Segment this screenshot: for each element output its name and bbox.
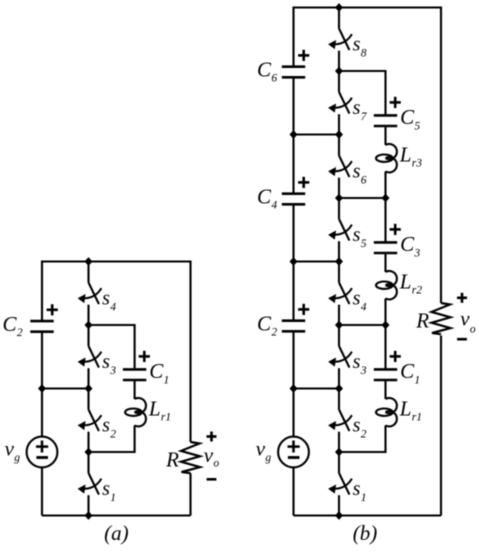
switch s4	[78, 262, 102, 326]
inductor Lr1	[125, 398, 146, 426]
capacitor C3	[374, 242, 397, 253]
svg-text:(b): (b)	[353, 521, 378, 545]
label R	[415, 309, 429, 333]
switch s7	[328, 71, 352, 135]
label R	[165, 448, 179, 472]
switch s3	[78, 325, 102, 389]
capacitor C5	[374, 115, 397, 126]
resistor R	[181, 442, 200, 473]
wire left rail segment 5 (b)	[292, 467, 294, 516]
wire inductor Lr2 to node n3b	[384, 298, 386, 325]
svg-text:(a): (a)	[104, 521, 129, 545]
inductor Lr2	[376, 271, 397, 299]
plus polarity C3	[390, 224, 401, 235]
label vo	[460, 306, 476, 335]
label C1	[400, 359, 420, 386]
wire left rail lower segment (a)	[41, 467, 43, 516]
label s2	[102, 415, 116, 441]
plus polarity C6	[298, 50, 309, 61]
label s1	[102, 478, 116, 504]
wire node n2a to middle rail (a)	[42, 387, 89, 389]
label Lr3	[399, 142, 422, 169]
label s2	[353, 415, 367, 441]
plus polarity C2	[298, 304, 309, 315]
inductor Lr1	[376, 398, 397, 426]
wire cap C1 to inductor Lr1 (b)	[384, 380, 386, 399]
switch s6	[328, 135, 352, 199]
switch s1	[78, 452, 102, 516]
svg-text:R: R	[165, 448, 179, 472]
minus output polarity	[207, 478, 217, 481]
inductor Lr3	[376, 144, 397, 172]
capacitor C1	[374, 369, 397, 380]
label s1	[353, 478, 367, 504]
label s4	[353, 288, 367, 314]
junction node dots (b)	[290, 3, 390, 520]
label C3	[400, 232, 420, 259]
plus polarity C2	[47, 304, 58, 315]
label C2	[257, 312, 277, 339]
junction node dots (a)	[38, 257, 93, 520]
svg-text:R: R	[415, 309, 429, 333]
plus polarity C5	[390, 97, 401, 108]
wire node n3b to branch rail	[339, 324, 386, 369]
wire right rail lower segment (a)	[189, 473, 191, 515]
caption (a)	[104, 521, 129, 545]
wire inductor Lr3 to node n5b	[384, 171, 386, 198]
label s4	[102, 288, 116, 314]
label Lr1	[148, 396, 171, 423]
voltage source vg	[27, 437, 58, 468]
wire node n2b to middle rail	[294, 387, 340, 389]
voltage source vg	[278, 437, 309, 468]
label C4	[257, 185, 277, 212]
wire cap C3 to inductor Lr2	[384, 253, 386, 272]
label C6	[257, 58, 277, 85]
capacitor C6	[282, 67, 305, 78]
resistor R	[432, 303, 451, 334]
wire bottom rail (b)	[294, 514, 442, 516]
label s3	[353, 351, 367, 377]
wire top rail (a)	[42, 260, 191, 262]
label s8	[353, 34, 367, 60]
label s7	[353, 97, 368, 123]
wire left rail segment 3 (b)	[292, 204, 294, 320]
switch s1	[328, 452, 352, 516]
switch s2	[328, 389, 352, 453]
wire left rail segment 2 (b)	[292, 77, 294, 193]
label s3	[102, 351, 116, 377]
wire right rail upper segment (b)	[440, 7, 442, 304]
plus polarity C1	[390, 351, 401, 362]
label vg	[5, 437, 21, 465]
wire cap C1 to inductor Lr1	[134, 380, 136, 399]
switch s4	[328, 262, 352, 326]
plus output polarity	[457, 293, 467, 303]
capacitor C4	[282, 194, 305, 205]
wire left rail upper segment (a)	[41, 261, 43, 322]
wire inductor Lr1 to branch bottom (a)	[89, 425, 135, 453]
wire node n5b to branch rail	[339, 197, 386, 242]
wire inductor Lr1 to branch bottom (b)	[339, 425, 386, 453]
switch s2	[78, 389, 102, 453]
wire bottom rail (a)	[42, 514, 191, 516]
switch s3	[328, 325, 352, 389]
capacitor C2	[282, 321, 305, 332]
minus output polarity	[457, 338, 467, 341]
plus polarity C4	[298, 177, 309, 188]
wire right rail lower segment (b)	[440, 336, 442, 516]
label s6	[353, 161, 367, 187]
switch s5	[328, 198, 352, 262]
label Lr2	[399, 269, 422, 296]
wire right rail upper segment (a)	[189, 261, 191, 443]
wire left rail segment 1 (b)	[292, 7, 294, 67]
switch s8	[328, 8, 352, 72]
wire branch top (a)	[89, 324, 135, 368]
capacitor C2	[30, 321, 53, 332]
label vg	[256, 437, 272, 465]
wire cap C5 to inductor Lr3	[384, 126, 386, 145]
label C1	[149, 359, 169, 386]
capacitor C1	[123, 369, 146, 380]
label C5	[400, 105, 420, 132]
label C2	[3, 312, 23, 339]
wire node n4b to middle rail	[294, 260, 340, 262]
caption (b)	[353, 521, 378, 545]
plus polarity C1	[139, 351, 150, 362]
wire node n6b to middle rail	[294, 133, 340, 135]
wire left rail middle segment (a)	[41, 332, 43, 437]
wire left rail segment 4 (b)	[292, 331, 294, 437]
label Lr1	[399, 396, 422, 423]
wire top rail (b)	[294, 6, 442, 8]
label s5	[353, 224, 367, 250]
plus output polarity	[207, 432, 217, 442]
label vo	[204, 443, 220, 470]
wire branch C5 top (b)	[339, 70, 386, 115]
